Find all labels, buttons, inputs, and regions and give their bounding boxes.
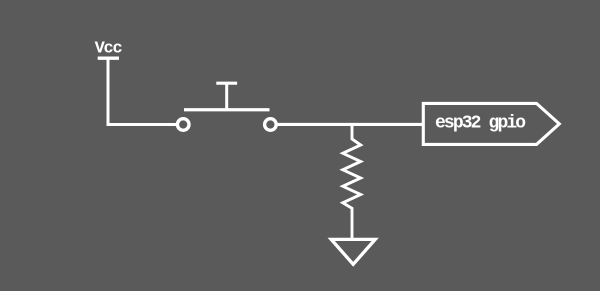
pushbutton S1 <box>177 83 276 130</box>
power Vcc <box>98 57 119 60</box>
resistor R1 <box>343 126 361 239</box>
svg-text:Vcc: Vcc <box>95 40 123 59</box>
ground <box>331 239 375 264</box>
wire Vcc to S1 <box>108 58 177 124</box>
flag esp32 gpio <box>423 103 559 144</box>
wire S1 to GPIO flag <box>278 123 422 126</box>
svg-text:esp32 gpio: esp32 gpio <box>435 114 525 134</box>
